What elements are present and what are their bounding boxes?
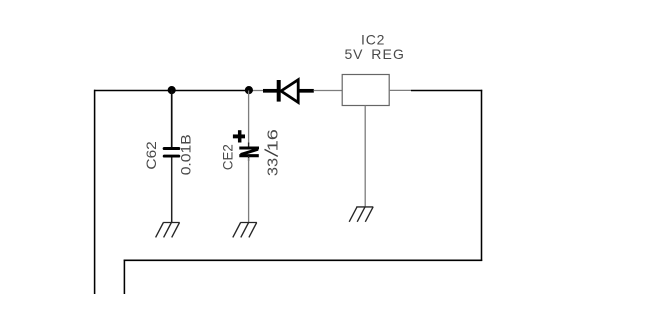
polarity plus of CE2 <box>233 130 245 142</box>
capacitor CE2 electrolytic <box>239 148 259 156</box>
ground under CE2 <box>233 223 257 238</box>
wire IC2 output to right bus <box>411 90 482 92</box>
wire IC2 ground pin <box>364 106 366 207</box>
wire top rail middle segment <box>172 90 249 92</box>
capacitor C62 <box>164 149 179 157</box>
wire CE2 lower stub <box>248 158 250 223</box>
svg-text:CE2: CE2 <box>219 144 235 170</box>
junction dot at C62 <box>168 86 176 94</box>
wire CE2 stub below plate <box>248 156 250 161</box>
wire diode cathode lead (bold) <box>298 89 314 93</box>
value 33/16 <box>264 129 281 176</box>
value 0.01B <box>177 134 193 175</box>
wire C62 upper stub <box>171 91 173 148</box>
wire IC2 output stub <box>390 89 411 91</box>
ground under C62 <box>156 223 180 238</box>
wire CE2 upper stub <box>248 91 250 145</box>
wire right vertical bus <box>481 90 483 261</box>
wire bottom rail <box>124 259 483 261</box>
junction dot at CE2 <box>245 86 253 94</box>
svg-text:IC2: IC2 <box>361 32 385 48</box>
svg-text:16: 16 <box>264 129 281 151</box>
wire C62 lower stub <box>171 158 173 223</box>
diode (cathode left) <box>279 80 299 103</box>
wire diode anode lead (bold) <box>263 89 277 93</box>
wire top rail left segment <box>94 90 172 92</box>
svg-text:C62: C62 <box>143 141 159 170</box>
wire node to diode anode <box>249 90 265 92</box>
label 5V REG <box>345 46 406 62</box>
label IC2 <box>361 32 385 48</box>
wire bottom-left vertical <box>123 260 125 294</box>
wire CE2 stub at plate <box>248 143 250 148</box>
svg-text:5V: 5V <box>345 46 364 62</box>
svg-text:REG: REG <box>371 46 405 62</box>
label CE2 <box>219 144 235 170</box>
ground under IC2 <box>349 207 373 222</box>
wire left vertical bus <box>94 90 96 294</box>
svg-text:0.01B: 0.01B <box>177 134 193 175</box>
label C62 <box>143 141 159 170</box>
wire diode to IC2 input <box>314 90 342 92</box>
regulator IC2 <box>342 75 389 106</box>
svg-text:33: 33 <box>264 158 281 176</box>
